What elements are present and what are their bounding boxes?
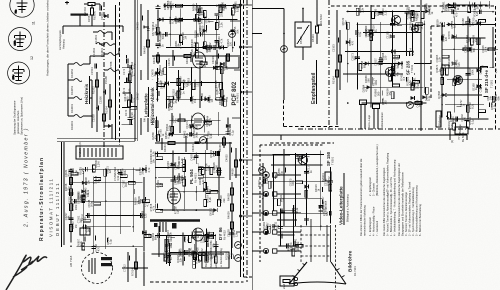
- boundary dashed corner: [284, 100, 341, 127]
- boundary dash-dot horizontal: [298, 128, 500, 130]
- capacitor C171: [122, 55, 132, 75]
- bus line solid right: [251, 0, 253, 290]
- resistor R1553: [87, 4, 97, 26]
- heater top parts: [83, 3, 108, 20]
- video IF cluster SF235: [341, 3, 434, 108]
- heavy winding bar: [150, 219, 200, 222]
- power supply cluster: [64, 160, 151, 252]
- label Heizkreis: [84, 76, 90, 104]
- boost cluster: [149, 149, 226, 216]
- connector Konv1: [360, 100, 372, 129]
- video board cluster: [257, 149, 333, 233]
- capacitor C172: [122, 78, 132, 94]
- label DY86: [218, 227, 227, 240]
- heater Rö3001: [68, 98, 92, 130]
- heater PY88: [104, 48, 119, 68]
- test point 7: [235, 242, 242, 249]
- wire Empfangsteil edge: [252, 9, 284, 101]
- label 75V Bu5001: [450, 129, 465, 143]
- bottom board boundary dashed: [150, 281, 244, 283]
- board boundary double horizontal: [57, 139, 137, 142]
- terminal dots: [302, 8, 304, 10]
- note box Selenblock: [202, 246, 229, 268]
- diode D1502: [104, 124, 112, 139]
- connector circles column: [252, 172, 301, 254]
- CRT divider cluster: [274, 205, 303, 256]
- bus line dash-dot: [246, 0, 248, 282]
- heater Rö4052: [68, 56, 104, 78]
- yoke cluster: [162, 243, 202, 268]
- boundary dashed right: [420, 0, 422, 131]
- heater Rö1601: [99, 43, 116, 58]
- test point 12: [281, 46, 288, 53]
- label Bildroehre: [348, 250, 358, 276]
- osc-boost bridge row: [155, 136, 232, 152]
- box 75V: [321, 172, 331, 182]
- boundary dash-dot Empfangsteil: [328, 0, 330, 129]
- tube socket diagram circle 12: [8, 62, 30, 84]
- box Bildlage: [455, 124, 468, 134]
- transistor T2161: [453, 75, 462, 84]
- label PCF802: [226, 55, 240, 106]
- board boundary dashed: [119, 2, 121, 145]
- test point M: [259, 167, 266, 174]
- board boundary double vertical: [135, 0, 137, 141]
- heater T bar: [71, 14, 89, 16]
- tick mark top: [65, 1, 69, 5]
- heater Rö1501: [93, 31, 112, 45]
- wire top long: [152, 55, 240, 57]
- heater Rö4051: [68, 64, 92, 95]
- capacitor C1504: [90, 64, 97, 75]
- bus line dashed: [244, 0, 253, 277]
- tube socket diagram circle 10: [10, 0, 34, 17]
- wire double vertical left: [62, 142, 65, 247]
- top corner cluster: [441, 1, 490, 13]
- R7305 box: [280, 276, 298, 289]
- video board top edge: [253, 135, 467, 140]
- wire SF235 feed column: [332, 10, 342, 125]
- heater col cluster: [122, 61, 137, 125]
- label PL504: [189, 169, 198, 184]
- bus line solid: [240, 0, 242, 277]
- transistor T5042: [391, 15, 400, 24]
- test point 9: [407, 102, 414, 109]
- selenium rectifier box SY130: [76, 142, 123, 159]
- video board dashed sub-box: [260, 145, 332, 262]
- resistor R5103: [311, 26, 318, 44]
- label Empfangsteil: [311, 60, 317, 104]
- pot Bildmuster: [436, 111, 458, 127]
- AFC cluster: [150, 60, 229, 111]
- test point A: [229, 31, 236, 38]
- heater Rö4001: [68, 80, 92, 113]
- board boundary dash-dot: [103, 2, 105, 150]
- CRT funnel: [289, 262, 346, 284]
- tube socket diagram circle 11: [9, 28, 32, 51]
- wire heater top: [63, 16, 123, 34]
- NTC box Heissleiter: [295, 9, 311, 61]
- wire Rö5002 stub: [317, 0, 322, 25]
- heater Rö1502: [92, 43, 105, 58]
- test point 8: [235, 255, 242, 262]
- label SF215: [484, 69, 494, 93]
- label Horizontal-Ablenk-Leiterplatte: [144, 87, 156, 125]
- signature: [6, 255, 47, 290]
- sync separator cluster: [151, 0, 240, 58]
- left board edge column: [136, 4, 150, 135]
- test point 5: [200, 137, 207, 144]
- resistor R170: [124, 100, 130, 116]
- transistor T5041: [385, 67, 394, 76]
- CRT base outline: [301, 219, 336, 290]
- resistor chain R4058: [227, 182, 234, 248]
- tube DY86: [193, 228, 204, 241]
- heater mid parts: [92, 72, 112, 132]
- tube PL504: [192, 113, 205, 129]
- lower left drops: [122, 248, 148, 286]
- EHT core marks: [154, 222, 177, 232]
- video amp cluster SF215: [435, 8, 500, 130]
- node H: [144, 26, 151, 32]
- Bu7308 box: [80, 225, 90, 235]
- line osc cluster: [150, 112, 235, 141]
- EHT cluster: [151, 226, 239, 264]
- tube PCF802 triode: [193, 52, 206, 68]
- boundary dashed horizontal: [270, 142, 334, 144]
- meter M: [252, 154, 290, 156]
- mid band fill cluster: [152, 50, 229, 66]
- bus stubs: [230, 4, 252, 232]
- label Video-Leiterplatte: [339, 173, 350, 225]
- label SF150: [326, 151, 335, 166]
- connector Konv2: [373, 104, 385, 129]
- heater Rö1602: [104, 69, 119, 85]
- test point 16: [412, 26, 419, 33]
- wire heater bus: [115, 5, 117, 140]
- transformer AB7118 dashed circle: [82, 253, 113, 284]
- right mid column: [225, 142, 238, 180]
- tube PY88: [168, 188, 181, 204]
- label SF235: [406, 60, 415, 75]
- transistor T6301: [298, 155, 307, 164]
